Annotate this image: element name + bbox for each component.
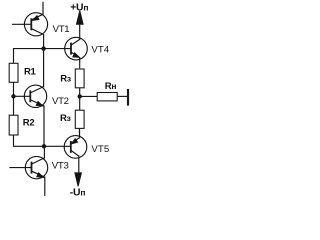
- svg-text:VT5: VT5: [91, 144, 109, 155]
- svg-text:Rн: Rн: [105, 81, 117, 92]
- svg-text:Rз: Rз: [60, 113, 71, 124]
- svg-text:Rз: Rз: [60, 74, 71, 85]
- svg-text:VT4: VT4: [91, 45, 109, 56]
- svg-text:R2: R2: [23, 118, 35, 129]
- svg-text:+Uп: +Uп: [70, 3, 88, 14]
- svg-text:VT1: VT1: [53, 24, 70, 35]
- svg-text:VT2: VT2: [52, 96, 69, 107]
- svg-text:R1: R1: [24, 67, 37, 78]
- svg-text:VT3: VT3: [52, 161, 69, 172]
- svg-text:-Uп: -Uп: [70, 187, 86, 198]
